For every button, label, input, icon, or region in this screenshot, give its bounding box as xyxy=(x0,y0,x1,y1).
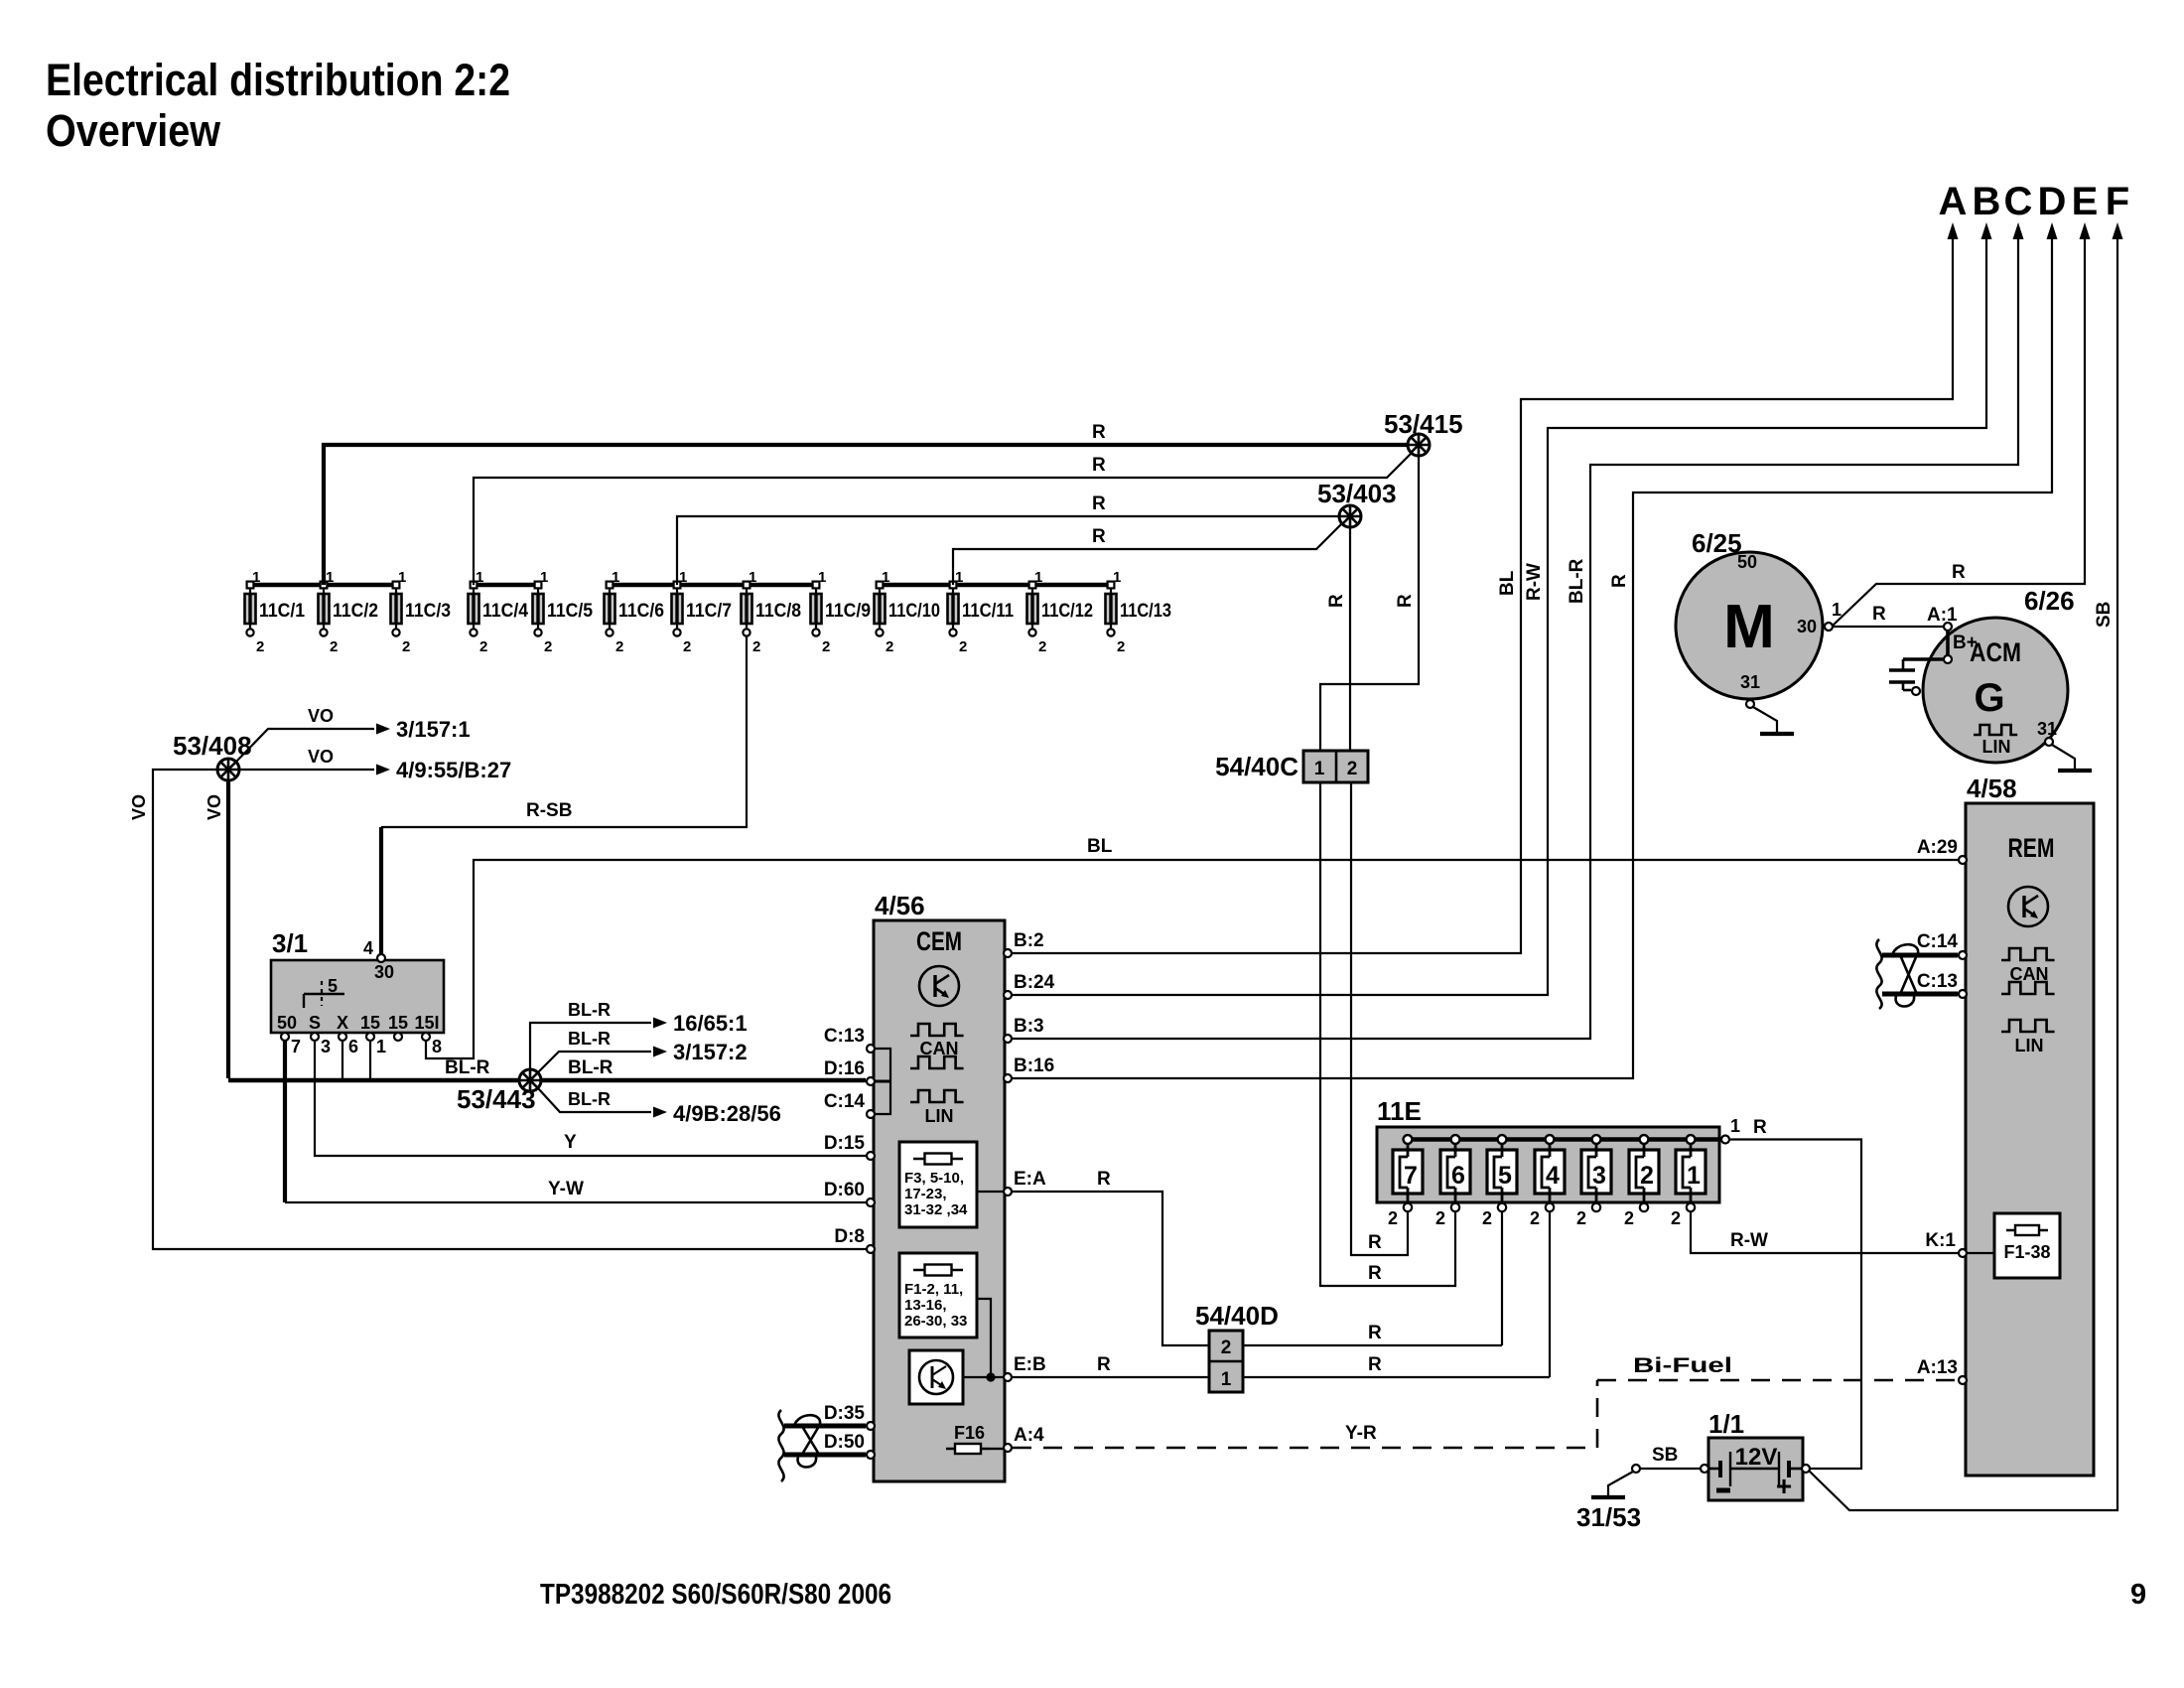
svg-text:1: 1 xyxy=(1314,759,1325,779)
wire BL-R net: CEM B:3 to arrow C xyxy=(1013,238,2018,1039)
wire bus 11C group 4-5 xyxy=(474,583,538,587)
wire BL net: CEM B:2 to arrow A xyxy=(1013,238,1953,953)
generator ground pin 31 xyxy=(2045,738,2053,746)
fuse 11C/9 xyxy=(811,569,872,655)
wire BL-R: splice 53/443 to 4/9B:28/56 xyxy=(538,1088,651,1112)
svg-text:R: R xyxy=(1097,1169,1111,1190)
wire R: 54/40C pin1 down to 11E fuse 6 xyxy=(1320,782,1455,1286)
ground (motor) xyxy=(1760,732,1794,736)
svg-text:1: 1 xyxy=(1113,569,1121,586)
svg-text:TP3988202 S60/S60R/S80 2006: TP3988202 S60/S60R/S80 2006 xyxy=(540,1579,891,1611)
svg-text:R: R xyxy=(1368,1232,1382,1253)
CEM pin D:15 xyxy=(867,1152,875,1160)
wire R: 11C/2 pin1 to splice 53/415 (thick) xyxy=(324,445,1408,585)
suppressor capacitor to ground at B+ xyxy=(1889,659,1943,690)
fuse 11C/4 xyxy=(469,569,529,655)
svg-text:2: 2 xyxy=(1038,638,1046,655)
switch symbol with position 5 xyxy=(304,993,344,995)
svg-text:F3, 5-10,: F3, 5-10, xyxy=(904,1170,964,1187)
wire BL-R: splice 53/443 to 16/65:1 xyxy=(530,1023,651,1069)
CEM pin C:13 xyxy=(867,1045,875,1053)
svg-text:C:14: C:14 xyxy=(824,1091,866,1112)
svg-text:BL: BL xyxy=(1497,570,1518,596)
svg-text:2: 2 xyxy=(402,638,410,655)
svg-text:A:29: A:29 xyxy=(1917,837,1958,858)
svg-text:1: 1 xyxy=(1687,1162,1701,1190)
motor ground pin 31 xyxy=(1746,700,1754,708)
svg-text:Y: Y xyxy=(564,1132,577,1153)
svg-text:11C/13: 11C/13 xyxy=(1120,601,1171,622)
wire VO: splice 53/408 to 3/157:1 xyxy=(236,729,374,762)
svg-text:5: 5 xyxy=(1498,1162,1512,1190)
svg-text:1: 1 xyxy=(376,1037,386,1056)
svg-text:2: 2 xyxy=(1640,1162,1654,1190)
wire R net: motor 6/25 pin 1 to arrow E xyxy=(1833,238,2085,626)
svg-text:R: R xyxy=(1368,1354,1382,1375)
CEM pin B:2 xyxy=(1004,949,1012,957)
svg-text:11C/4: 11C/4 xyxy=(482,601,528,622)
svg-text:11C/7: 11C/7 xyxy=(686,601,732,622)
svg-text:1: 1 xyxy=(679,569,687,586)
bottom pin of 3/1 at x=317 xyxy=(311,1033,319,1041)
svg-text:R-SB: R-SB xyxy=(526,800,572,821)
svg-text:2: 2 xyxy=(1671,1208,1681,1228)
splice 53/408 xyxy=(217,759,239,780)
splice 53/403 xyxy=(1339,505,1361,527)
svg-text:2: 2 xyxy=(615,638,623,655)
CEM pin B:16 xyxy=(1004,1074,1012,1082)
CAN symbol in CEM xyxy=(910,1024,964,1036)
svg-text:D:50: D:50 xyxy=(824,1432,865,1453)
svg-text:R: R xyxy=(1368,1323,1382,1343)
CEM pin E:A xyxy=(1004,1188,1012,1196)
svg-text:BL-R: BL-R xyxy=(568,1029,611,1049)
svg-text:15: 15 xyxy=(388,1013,408,1033)
svg-text:1: 1 xyxy=(1034,569,1042,586)
svg-text:4: 4 xyxy=(1546,1162,1560,1190)
svg-text:7: 7 xyxy=(1404,1162,1418,1190)
svg-text:R: R xyxy=(1952,562,1966,583)
fuse 11C/6 xyxy=(605,569,665,655)
svg-text:D: D xyxy=(2038,180,2067,223)
svg-text:7: 7 xyxy=(291,1037,301,1056)
svg-text:Y-R: Y-R xyxy=(1345,1423,1377,1444)
svg-text:SB: SB xyxy=(1652,1445,1678,1466)
svg-text:5: 5 xyxy=(328,976,338,996)
splice 53/415 xyxy=(1408,434,1430,456)
LIN symbol in REM xyxy=(2001,1020,2055,1032)
CEM pin C:14 xyxy=(867,1110,875,1118)
svg-text:R: R xyxy=(1872,604,1886,625)
svg-text:17-23,: 17-23, xyxy=(904,1186,947,1202)
CEM pin A:4 xyxy=(1004,1444,1012,1452)
svg-text:Bi-Fuel: Bi-Fuel xyxy=(1633,1354,1732,1377)
REM pin A:13 xyxy=(1959,1376,1967,1384)
wire R net: CEM B:16 to arrow D xyxy=(1013,238,2052,1078)
svg-text:1: 1 xyxy=(818,569,826,586)
transistor symbol in REM xyxy=(2008,887,2048,926)
CEM pin B:24 xyxy=(1004,991,1012,999)
svg-text:VO: VO xyxy=(205,794,224,820)
svg-text:4: 4 xyxy=(363,938,373,958)
svg-text:S: S xyxy=(309,1013,321,1033)
REM pin C:13 with twisted pair xyxy=(1882,992,1958,997)
svg-text:4/9:55/B:27: 4/9:55/B:27 xyxy=(396,758,511,782)
svg-text:BL-R: BL-R xyxy=(568,1000,611,1020)
svg-text:K:1: K:1 xyxy=(1925,1230,1956,1251)
svg-text:R: R xyxy=(1753,1117,1767,1138)
wire: 3/1 pin 15/1 down to BL-R run xyxy=(369,1041,371,1078)
svg-text:2: 2 xyxy=(683,638,691,655)
wire VO: splice 53/408 down to BL-R run xyxy=(226,780,230,1078)
svg-text:2: 2 xyxy=(1576,1208,1586,1228)
svg-text:D:15: D:15 xyxy=(824,1133,866,1154)
svg-text:A:4: A:4 xyxy=(1014,1425,1044,1446)
svg-text:4/56: 4/56 xyxy=(875,891,925,920)
svg-text:1: 1 xyxy=(882,569,889,586)
battery terminal + xyxy=(1802,1465,1810,1473)
svg-text:CEM: CEM xyxy=(916,926,962,956)
svg-text:26-30, 33: 26-30, 33 xyxy=(904,1313,967,1330)
svg-text:11C/8: 11C/8 xyxy=(755,601,801,622)
wire R: splice 53/403 down to 54/40C pin 2 xyxy=(1349,527,1351,753)
svg-text:R: R xyxy=(1092,455,1106,476)
svg-text:16/65:1: 16/65:1 xyxy=(673,1011,748,1036)
svg-text:F1-2, 11,: F1-2, 11, xyxy=(904,1281,963,1298)
fuse 11C/8 xyxy=(742,569,802,655)
ground 31/53 xyxy=(1591,1495,1625,1499)
svg-text:2: 2 xyxy=(256,638,264,655)
pin 4 (30) of 3/1 xyxy=(377,954,385,962)
svg-text:1: 1 xyxy=(1730,1116,1740,1136)
svg-text:D:60: D:60 xyxy=(824,1180,865,1200)
svg-text:11C/3: 11C/3 xyxy=(405,601,451,622)
CAN symbol in REM xyxy=(2001,948,2055,960)
svg-text:6/25: 6/25 xyxy=(1692,528,1742,558)
pin bracket C:13/D:16/C:14 inside CEM xyxy=(874,1049,890,1114)
svg-text:1: 1 xyxy=(1832,600,1842,620)
bottom pin of 3/1 at x=373 xyxy=(366,1033,374,1041)
svg-text:1: 1 xyxy=(540,569,548,586)
svg-text:REM: REM xyxy=(2008,833,2055,863)
svg-text:3: 3 xyxy=(321,1037,331,1056)
svg-text:11C/10: 11C/10 xyxy=(888,601,940,622)
twisted pair symbol at CEM D:35/D:50 xyxy=(778,1410,820,1481)
wire R: 11C/7 pin1 to splice 53/403 xyxy=(677,516,1339,585)
connector 54/40C xyxy=(1303,751,1368,782)
svg-text:3/157:1: 3/157:1 xyxy=(396,717,471,742)
fuse 1 in 11E xyxy=(1671,1135,1706,1228)
svg-text:31/53: 31/53 xyxy=(1576,1502,1641,1532)
svg-text:VO: VO xyxy=(308,747,334,767)
fuse box 11E xyxy=(1377,1127,1719,1202)
svg-text:LIN: LIN xyxy=(1982,737,2011,757)
wire R: 11C/4 pin1 to splice 53/415 xyxy=(474,454,1411,585)
svg-text:11C/1: 11C/1 xyxy=(259,601,305,622)
svg-text:M: M xyxy=(1723,593,1775,661)
svg-text:B:2: B:2 xyxy=(1014,930,1044,951)
wire R: 11C/11 pin1 to splice 53/403 xyxy=(953,523,1342,585)
svg-text:R: R xyxy=(1092,493,1106,514)
svg-text:11C/5: 11C/5 xyxy=(547,601,593,622)
ignition switch 3/1 xyxy=(271,928,444,1033)
svg-text:9: 9 xyxy=(2130,1579,2146,1611)
svg-text:2: 2 xyxy=(1482,1208,1492,1228)
svg-text:30: 30 xyxy=(1797,617,1817,636)
svg-text:B:24: B:24 xyxy=(1014,972,1055,993)
svg-text:50: 50 xyxy=(277,1013,297,1033)
svg-text:BL: BL xyxy=(1087,836,1113,857)
svg-text:BL-R: BL-R xyxy=(1567,558,1587,604)
svg-text:LIN: LIN xyxy=(2015,1036,2044,1055)
fuse 6 in 11E xyxy=(1435,1135,1470,1228)
CEM pin D:8 xyxy=(867,1245,875,1253)
svg-text:6: 6 xyxy=(1451,1162,1465,1190)
bottom pin of 3/1 at x=287 xyxy=(281,1033,289,1041)
generator body terminal xyxy=(1912,687,1920,695)
svg-text:11C/12: 11C/12 xyxy=(1041,601,1093,622)
fuse 11C/11 xyxy=(948,569,1015,655)
ground (generator) xyxy=(2058,769,2092,773)
twisted pair symbol at REM C:14/C:13 xyxy=(1876,939,1918,1009)
bottom pin of 3/1 at x=345 xyxy=(339,1033,346,1041)
svg-text:31: 31 xyxy=(1740,672,1760,692)
svg-text:R: R xyxy=(1092,526,1106,547)
svg-text:11E: 11E xyxy=(1377,1096,1422,1126)
wire Y-W: to CEM D:60 xyxy=(285,1201,866,1203)
CEM pin B:3 xyxy=(1004,1035,1012,1043)
svg-text:2: 2 xyxy=(1435,1208,1445,1228)
svg-text:11C/2: 11C/2 xyxy=(333,601,378,622)
svg-text:D:8: D:8 xyxy=(834,1226,865,1247)
wire SB net: battery + to arrow F xyxy=(1809,238,2117,1510)
fuse 11C/1 xyxy=(245,569,306,655)
svg-text:R-W: R-W xyxy=(1730,1230,1768,1251)
11E pin 1 (right) xyxy=(1721,1136,1729,1144)
svg-text:53/403: 53/403 xyxy=(1317,479,1397,508)
svg-text:Overview: Overview xyxy=(46,105,221,156)
transistor symbol in CEM xyxy=(919,966,959,1006)
svg-text:C:13: C:13 xyxy=(824,1026,865,1047)
bottom pin of 3/1 at x=401 xyxy=(394,1033,402,1041)
svg-text:8: 8 xyxy=(432,1037,442,1056)
bus bar in 11E xyxy=(1408,1137,1725,1141)
wire R: splice 53/415 down to 54/40C pin 1 xyxy=(1320,456,1419,753)
svg-text:15: 15 xyxy=(360,1013,380,1033)
svg-text:2: 2 xyxy=(1221,1337,1232,1358)
svg-text:3/1: 3/1 xyxy=(272,928,308,958)
transistor output box in CEM xyxy=(909,1350,963,1404)
svg-text:D:16: D:16 xyxy=(824,1058,865,1079)
connector 54/40D xyxy=(1209,1331,1243,1392)
CEM pin D:50 with twisted pair wire xyxy=(784,1453,866,1458)
wire R-W: 11E fuse1 pin2 to REM K:1 xyxy=(1691,1212,1958,1253)
svg-text:2: 2 xyxy=(886,638,893,655)
fuse 11C/10 xyxy=(875,569,941,655)
fuse 5 in 11E xyxy=(1482,1135,1517,1228)
REM pin A:29 xyxy=(1959,856,1967,864)
svg-text:2: 2 xyxy=(1117,638,1125,655)
svg-text:6/26: 6/26 xyxy=(2024,586,2075,616)
svg-text:2: 2 xyxy=(959,638,967,655)
battery 1/1 xyxy=(1708,1438,1803,1501)
fuse 3 in 11E xyxy=(1576,1135,1611,1228)
fuse 11C/2 xyxy=(319,569,379,655)
svg-text:G: G xyxy=(1974,676,2004,720)
svg-text:30: 30 xyxy=(374,962,394,982)
LIN symbol in generator xyxy=(1974,725,2017,735)
fuse 11C/5 xyxy=(533,569,594,655)
svg-text:C:14: C:14 xyxy=(1917,931,1959,952)
wire BL: 3/1 pin 15I/8 to REM A:29 xyxy=(426,860,1958,1058)
svg-text:A: A xyxy=(1939,180,1968,223)
svg-text:1: 1 xyxy=(326,569,334,586)
wire BL-R: splice 53/443 to 3/157:2 xyxy=(538,1052,651,1072)
wire bus 11C group 1-3 xyxy=(250,583,396,587)
svg-text:B: B xyxy=(1973,180,2001,223)
fuse group box F1-2,11,13-16,26-30,33 xyxy=(899,1253,977,1337)
CEM pin D:16 xyxy=(867,1077,875,1085)
svg-text:1: 1 xyxy=(398,569,406,586)
svg-text:C:13: C:13 xyxy=(1917,971,1958,992)
svg-text:1: 1 xyxy=(252,569,260,586)
svg-text:VO: VO xyxy=(308,706,334,726)
svg-text:1: 1 xyxy=(476,569,483,586)
svg-text:53/415: 53/415 xyxy=(1384,409,1463,439)
svg-text:E:B: E:B xyxy=(1014,1354,1046,1375)
fuse 11C/3 xyxy=(391,569,452,655)
svg-text:15I: 15I xyxy=(414,1013,439,1033)
wire R-W net: CEM B:24 to arrow B xyxy=(1013,238,1986,995)
svg-text:BL-R: BL-R xyxy=(445,1057,490,1078)
svg-text:2: 2 xyxy=(1347,759,1358,779)
fuse 11C/7 xyxy=(672,569,733,655)
wire R: 54/40C pin2 down to 11E fuse 7 xyxy=(1351,782,1408,1255)
wire Y-R (dashed): CEM A:4 to REM A:13 xyxy=(1013,1447,1597,1450)
svg-text:R: R xyxy=(1326,594,1347,608)
svg-text:53/408: 53/408 xyxy=(173,731,252,761)
svg-text:11C/11: 11C/11 xyxy=(962,601,1014,622)
svg-text:X: X xyxy=(337,1013,348,1033)
wire Y: 3/1 pin S/3 to CEM D:15 xyxy=(315,1041,866,1156)
REM pin C:14 with twisted pair xyxy=(1882,953,1958,958)
svg-text:6: 6 xyxy=(348,1037,358,1056)
motor pin 1 (30) xyxy=(1825,623,1833,631)
wire SB: ground 31/53 to battery - xyxy=(1641,1468,1700,1470)
wire R: CEM E:B to 54/40D pin 1 and 11E fuse 4 xyxy=(1013,1376,1209,1378)
svg-text:F: F xyxy=(2106,180,2129,223)
svg-text:2: 2 xyxy=(822,638,830,655)
wire VO: splice 53/408 left and down to CEM D:8 xyxy=(153,770,866,1249)
svg-text:R: R xyxy=(1368,1263,1382,1284)
svg-text:3/157:2: 3/157:2 xyxy=(673,1040,748,1064)
wire bus 11C group 10-13 xyxy=(880,583,1111,587)
wire R-SB: 11C/8 pin2 to 3/1 pin 4 xyxy=(381,636,747,827)
control module CEM 4/56 xyxy=(874,920,1005,1481)
starter motor 6/25 xyxy=(1676,552,1823,699)
fuse 11C/13 xyxy=(1106,569,1172,655)
svg-text:1: 1 xyxy=(955,569,963,586)
fuse group box F3,5-10,17-23,31-32,34 xyxy=(899,1142,977,1227)
wire R: 11E pin1 down to battery + xyxy=(1730,1140,1861,1470)
wire VO: splice 53/408 to 4/9:55/B:27 xyxy=(239,769,374,771)
CEM pin D:60 xyxy=(867,1198,875,1206)
svg-text:R: R xyxy=(1395,594,1416,608)
svg-text:B:16: B:16 xyxy=(1014,1055,1054,1076)
wire R: CEM E:A to 54/40D pin 2 and 11E fuse 5 xyxy=(1013,1192,1209,1345)
fuse 7 in 11E xyxy=(1388,1135,1423,1228)
fuse 11C/12 xyxy=(1027,569,1094,655)
svg-text:C: C xyxy=(2004,180,2033,223)
svg-text:E: E xyxy=(2072,180,2099,223)
ground terminal circle xyxy=(1632,1465,1640,1473)
svg-text:R: R xyxy=(1092,422,1106,443)
svg-text:1: 1 xyxy=(749,569,756,586)
svg-text:31: 31 xyxy=(2037,719,2057,739)
svg-text:1: 1 xyxy=(1221,1369,1232,1390)
svg-text:2: 2 xyxy=(479,638,487,655)
svg-text:B:3: B:3 xyxy=(1014,1016,1044,1037)
wire: fuse box 2 to E:B junction xyxy=(977,1299,991,1377)
svg-text:2: 2 xyxy=(752,638,760,655)
svg-text:B+: B+ xyxy=(1953,633,1978,653)
svg-text:1/1: 1/1 xyxy=(1708,1409,1744,1439)
REM pin K:1 xyxy=(1959,1249,1967,1257)
wire: 3/1 pin X/6 down to BL-R run xyxy=(341,1041,343,1078)
svg-text:54/40C: 54/40C xyxy=(1215,752,1298,781)
svg-text:54/40D: 54/40D xyxy=(1195,1301,1279,1331)
generator ACM 6/26 xyxy=(1923,618,2068,763)
wire: 3/1 pin 50/7 down (thick) xyxy=(283,1041,287,1202)
svg-text:4/58: 4/58 xyxy=(1967,774,2017,803)
svg-text:12V: 12V xyxy=(1735,1444,1778,1471)
svg-text:Y-W: Y-W xyxy=(548,1179,584,1199)
fuse 2 in 11E xyxy=(1624,1135,1659,1228)
svg-text:2: 2 xyxy=(544,638,552,655)
svg-text:11C/9: 11C/9 xyxy=(825,601,871,622)
svg-text:BL-R: BL-R xyxy=(568,1089,611,1109)
svg-text:13-16,: 13-16, xyxy=(904,1297,947,1314)
svg-text:F16: F16 xyxy=(954,1423,985,1443)
svg-text:BL-R: BL-R xyxy=(568,1057,614,1078)
svg-text:3: 3 xyxy=(1592,1162,1606,1190)
svg-text:A:1: A:1 xyxy=(1927,605,1958,626)
svg-text:D:35: D:35 xyxy=(824,1403,866,1424)
CEM pin D:35 with twisted pair wire xyxy=(784,1424,866,1429)
control module REM 4/58 xyxy=(1966,803,2094,1476)
CEM pin E:B xyxy=(1004,1373,1012,1381)
svg-text:2: 2 xyxy=(1530,1208,1540,1228)
svg-text:R: R xyxy=(1097,1354,1111,1375)
fuse 4 in 11E xyxy=(1530,1135,1565,1228)
svg-text:1: 1 xyxy=(612,569,619,586)
wire R: motor pin1 to generator A:1 xyxy=(1834,626,1944,628)
svg-text:53/443: 53/443 xyxy=(457,1084,536,1114)
svg-text:E:A: E:A xyxy=(1014,1169,1046,1190)
svg-text:4/9B:28/56: 4/9B:28/56 xyxy=(673,1101,781,1126)
svg-text:11C/6: 11C/6 xyxy=(618,601,664,622)
svg-text:SB: SB xyxy=(2094,602,2115,628)
svg-text:2: 2 xyxy=(1624,1208,1634,1228)
wire bus 11C group 6-9 xyxy=(610,583,816,587)
svg-text:F1-38: F1-38 xyxy=(2003,1242,2050,1262)
wire: fuse box to pin E:A xyxy=(977,1191,1005,1193)
svg-text:LIN: LIN xyxy=(925,1106,954,1126)
junction dot at E:B xyxy=(986,1372,995,1381)
svg-text:31-32 ,34: 31-32 ,34 xyxy=(904,1201,968,1218)
wire: REM K:1 to fuse box xyxy=(1967,1252,1994,1254)
svg-text:Electrical distribution 2:2: Electrical distribution 2:2 xyxy=(46,55,510,105)
